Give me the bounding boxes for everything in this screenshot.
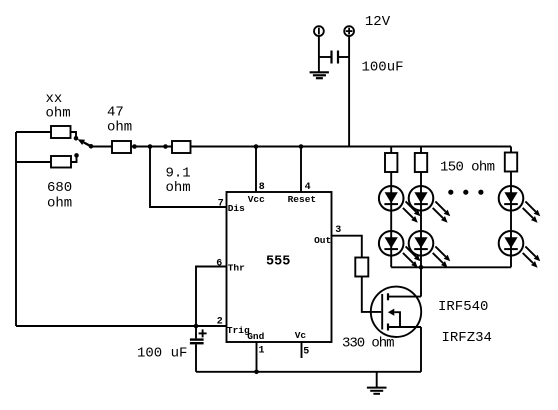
svg-text:4: 4	[305, 182, 311, 193]
resistor R4 (9.1 ohm)	[172, 141, 191, 153]
switch SW1 blade with arrowhead	[78, 139, 91, 146]
wire: LED bottom rail	[391, 266, 511, 268]
svg-text:ohm: ohm	[107, 120, 132, 136]
LED D4	[409, 231, 451, 268]
Q1 body arrow	[388, 309, 400, 327]
Q1 source lead	[388, 326, 421, 328]
ellipsis dots for more LED strings	[448, 190, 483, 195]
junction dot at Dis tap	[148, 144, 153, 149]
wire: R1 to switch upper contact	[71, 132, 77, 137]
switch SW1 upper contact dot	[74, 136, 79, 141]
label 680 ohm	[47, 180, 72, 212]
wire: C2 top lead	[195, 326, 197, 338]
svg-text:Reset: Reset	[288, 194, 317, 205]
svg-text:100uF: 100uF	[362, 60, 404, 76]
Q1 drain lead	[388, 296, 421, 298]
svg-text:ohm: ohm	[166, 180, 191, 196]
label 9.1 ohm	[166, 166, 191, 197]
svg-text:555: 555	[266, 255, 290, 270]
svg-text:ohm: ohm	[46, 106, 71, 122]
wire: 12V supply drop to rail	[348, 36, 350, 147]
LED D5	[499, 186, 541, 223]
svg-text:12V: 12V	[365, 14, 391, 30]
battery negative terminal	[314, 26, 324, 36]
transistor Q1 MOSFET circle	[371, 287, 421, 337]
resistor R1 (xx ohm)	[51, 126, 71, 138]
LED D6	[499, 231, 541, 268]
wire: lead to resistor R2 (680 ohm)	[16, 161, 51, 163]
wire: R2 to switch lower contact	[71, 157, 77, 163]
wire: LED column 3	[510, 172, 512, 268]
wire: negative terminal to ground	[318, 36, 320, 72]
junction dot at Trig/Thr/C2	[194, 324, 199, 329]
plus mark of C2	[199, 329, 207, 337]
svg-text:3: 3	[335, 225, 341, 236]
wire: Q1 source down to ground rail	[420, 327, 422, 372]
wire: pin 5 Vc stub	[301, 342, 303, 358]
LED D2	[379, 231, 421, 268]
svg-text:IRFZ34: IRFZ34	[442, 330, 492, 346]
wire: stub rail to R7	[420, 147, 422, 154]
wire: trig horizontal from left bus to pin 2	[16, 325, 227, 327]
wire: C2 bottom lead to ground rail	[195, 344, 197, 371]
resistor R8 (150 ohm col 3)	[505, 153, 517, 172]
junction dot at pin 4	[299, 144, 304, 149]
svg-text:330 ohm: 330 ohm	[342, 336, 395, 352]
Q1 source contact tick	[387, 324, 389, 331]
capacitor C2 (100 uF) plates	[190, 340, 204, 344]
svg-text:2: 2	[217, 317, 223, 328]
svg-text:Dis: Dis	[228, 203, 245, 214]
capacitor C1 (100uF) plates	[332, 51, 339, 64]
svg-text:1: 1	[259, 345, 265, 356]
resistor R3 (47 ohm)	[112, 141, 131, 153]
svg-text:ohm: ohm	[47, 196, 72, 212]
junction dot at pin 8	[254, 144, 259, 149]
svg-text:Out: Out	[314, 235, 331, 246]
resistor R2 (680 ohm)	[51, 156, 71, 168]
junction dot at pin 1 on ground rail	[254, 370, 259, 375]
svg-text:8: 8	[259, 182, 265, 193]
label xx ohm	[46, 91, 71, 122]
wire: pin 6 Thr	[196, 267, 227, 327]
wire: stub rail corner to R8	[510, 147, 512, 153]
svg-text:Vc: Vc	[295, 330, 307, 341]
battery positive terminal (+)	[344, 26, 354, 36]
wire: LED column 2 down to Q1 drain	[420, 172, 422, 297]
wire: pin 4 Reset drop from rail	[300, 147, 302, 193]
svg-text:7: 7	[218, 199, 224, 210]
label 47 ohm	[107, 105, 132, 136]
LED D1	[379, 186, 421, 223]
wire: bottom ground rail	[196, 371, 421, 373]
junction dot after R3	[132, 144, 137, 149]
svg-text:150 ohm: 150 ohm	[440, 160, 495, 176]
wire: stub rail to R6	[390, 147, 392, 154]
svg-text:Thr: Thr	[228, 263, 245, 274]
switch SW1 pole dot	[89, 144, 94, 149]
svg-text:5: 5	[303, 346, 309, 357]
wire: pin 1 Gnd drop	[256, 342, 258, 372]
wire: tap down and over to pin 7 Dis	[150, 147, 227, 208]
Q1 gate bar	[381, 294, 383, 330]
junction dot before R4	[163, 144, 168, 149]
resistor R6 (150 ohm col 1)	[385, 153, 397, 172]
wire: left bus vertical	[15, 132, 17, 326]
svg-text:100 uF: 100 uF	[137, 346, 187, 362]
wire: C1 left lead	[319, 56, 331, 58]
wire: C1 right lead	[339, 56, 349, 58]
wire: main top rail	[91, 146, 511, 148]
ground symbol (top)	[310, 72, 329, 78]
wire: LED column 1	[390, 172, 392, 267]
svg-text:680: 680	[47, 180, 72, 196]
wire: R5 to MOSFET gate	[362, 277, 381, 312]
resistor R5 (330 ohm)	[355, 258, 368, 277]
wire: lead to resistor R1 (xx ohm)	[16, 131, 51, 133]
junction dot LED rail to drain	[419, 265, 424, 270]
Q1 drain contact tick	[387, 293, 389, 300]
ground symbol (bottom)	[367, 372, 387, 394]
svg-text:6: 6	[216, 259, 222, 270]
wire: pin 8 Vcc drop from rail	[255, 147, 257, 193]
resistor R7 (150 ohm col 2)	[415, 153, 427, 172]
LED D3	[409, 186, 451, 223]
svg-text:Gnd: Gnd	[247, 331, 264, 342]
op 555 IC body U1	[227, 192, 332, 342]
svg-text:47: 47	[107, 105, 124, 121]
switch SW1 lower contact dot	[74, 153, 79, 158]
svg-text:IRF540: IRF540	[438, 299, 488, 315]
svg-text:Vcc: Vcc	[248, 194, 265, 205]
wire: pin 3 Out over and down	[332, 236, 362, 258]
